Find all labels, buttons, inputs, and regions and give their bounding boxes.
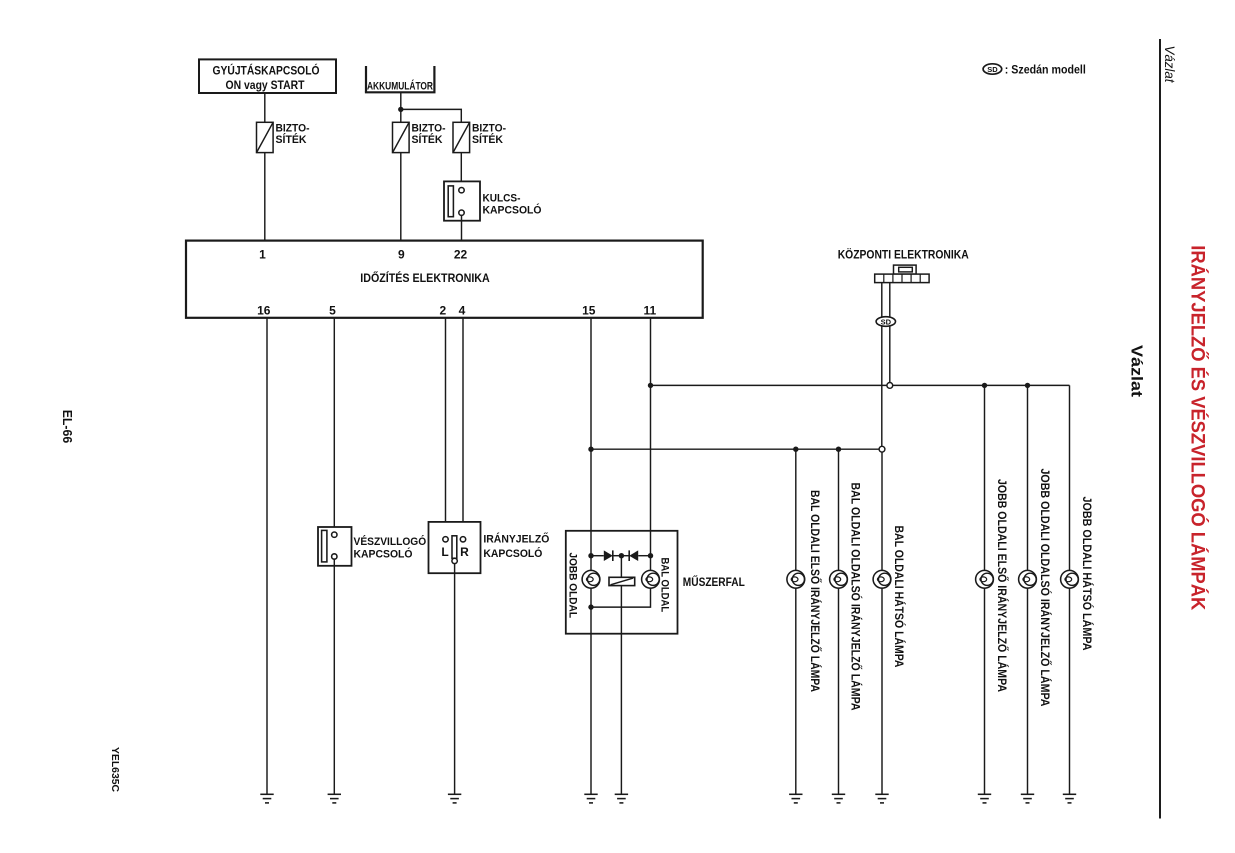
- wire central electronics left lead: [881, 283, 883, 447]
- wire lamp circuit 1 lower: [795, 588, 797, 794]
- control unit box IDŐZÍTÉS ELEKTRONIKA: [186, 241, 703, 318]
- wire pin 16 to ground: [266, 318, 268, 795]
- hazard switch VÉSZVILLOGÓ KAPCSOLÓ: [318, 527, 427, 566]
- svg-text:VÉSZVILLOGÓ: VÉSZVILLOGÓ: [354, 535, 427, 548]
- fuse F2: [393, 122, 446, 152]
- flasher unit: [609, 577, 635, 585]
- wire lamp circuit 2 upper: [838, 449, 840, 570]
- lamp L5 side right: [1019, 570, 1037, 588]
- svg-text:9: 9: [398, 248, 405, 262]
- svg-text:BIZTO-: BIZTO-: [472, 123, 506, 135]
- svg-text:L: L: [441, 545, 448, 559]
- ignition switch box: [199, 59, 336, 93]
- fuse F3: [453, 122, 506, 152]
- wire left lamp to ground: [590, 588, 592, 794]
- svg-text:16: 16: [257, 303, 271, 317]
- lamp L3 rear left: [873, 570, 891, 588]
- wire to diode D2: [638, 555, 650, 557]
- wire pin 5 to hazard switch: [333, 318, 335, 532]
- ground hazard switch: [328, 794, 341, 803]
- central electronics connector: [875, 265, 929, 283]
- wire turn signal switch to ground: [454, 564, 456, 795]
- svg-text:MŰSZERFAL: MŰSZERFAL: [683, 574, 745, 589]
- indicator lamp left (JOBB OLDAL): [582, 570, 600, 588]
- wire rail A right lamps feed: [651, 384, 1070, 386]
- key switch: [444, 181, 542, 220]
- connector terminal circle on rail B: [879, 446, 885, 452]
- wire ignition to fuse F1: [264, 93, 266, 122]
- ground turn signal switch: [448, 794, 461, 803]
- svg-text:JOBB OLDAL: JOBB OLDAL: [566, 553, 578, 619]
- svg-text:KAPCSOLÓ: KAPCSOLÓ: [354, 548, 413, 561]
- svg-text:Vázlat: Vázlat: [1128, 345, 1145, 397]
- wire lamp circuit 2 lower: [838, 588, 840, 794]
- svg-text:BAL OLDALI HÁTSÓ LÁMPA: BAL OLDALI HÁTSÓ LÁMPA: [892, 526, 907, 668]
- connector SD badge: [876, 317, 895, 327]
- wire branch to fuse F3: [401, 109, 462, 122]
- wire pin 4 to turn signal switch: [462, 318, 464, 537]
- svg-text:JOBB OLDALI OLDALSÓ IRÁNYJELZŐ: JOBB OLDALI OLDALSÓ IRÁNYJELZŐ LÁMPA: [1038, 469, 1053, 707]
- svg-text:KULCS-: KULCS-: [483, 193, 521, 205]
- svg-text:15: 15: [582, 303, 596, 317]
- svg-text:SÍTÉK: SÍTÉK: [276, 133, 307, 146]
- lamp L6 rear right: [1061, 570, 1079, 588]
- svg-text:SÍTÉK: SÍTÉK: [472, 133, 503, 146]
- wire central electronics right lead: [889, 283, 891, 383]
- ground lamp L2: [832, 794, 845, 803]
- svg-text:BAL OLDALI ELSŐ IRÁNYJELZŐ LÁM: BAL OLDALI ELSŐ IRÁNYJELZŐ LÁMPA: [808, 490, 823, 692]
- ground lamp L4: [978, 794, 991, 803]
- svg-text:IRÁNYJELZŐ: IRÁNYJELZŐ: [483, 533, 549, 546]
- svg-text:5: 5: [329, 303, 336, 317]
- svg-text:JOBB OLDALI ELSŐ IRÁNYJELZŐ LÁ: JOBB OLDALI ELSŐ IRÁNYJELZŐ LÁMPA: [995, 479, 1010, 692]
- wire F1 to control unit pin 1: [264, 153, 266, 241]
- svg-text:R: R: [460, 545, 469, 559]
- svg-text:BIZTO-: BIZTO-: [412, 123, 446, 135]
- wire center to flasher unit: [620, 556, 622, 578]
- svg-text:EL-66: EL-66: [60, 410, 75, 444]
- ground lamp L6: [1063, 794, 1076, 803]
- wire lamp circuit 5 upper: [1027, 385, 1029, 570]
- battery: [365, 66, 436, 92]
- wire F3 to key switch: [460, 153, 462, 188]
- svg-text:JOBB OLDALI HÁTSÓ LÁMPA: JOBB OLDALI HÁTSÓ LÁMPA: [1080, 497, 1095, 651]
- svg-text:KAPCSOLÓ: KAPCSOLÓ: [483, 204, 542, 217]
- svg-text:SD: SD: [881, 317, 892, 326]
- wire flasher to ground: [620, 586, 622, 795]
- node junction rail A lamp 4: [982, 383, 987, 388]
- wire pin 15 down to instrument panel: [590, 318, 592, 571]
- node junction diode row center: [619, 553, 624, 558]
- wire pin 2 to turn signal switch: [445, 318, 447, 537]
- wire lamp circuit 6 upper: [1069, 385, 1071, 570]
- svg-text:Vázlat: Vázlat: [1162, 46, 1177, 84]
- ground lamp L3: [875, 794, 888, 803]
- svg-text:SD: SD: [987, 65, 998, 74]
- node junction rail B lamp 2: [836, 447, 841, 452]
- wire lamp circuit 4 upper: [984, 385, 986, 570]
- node junction diode row right: [648, 553, 653, 558]
- ground lamp L5: [1021, 794, 1034, 803]
- svg-text:KAPCSOLÓ: KAPCSOLÓ: [483, 547, 542, 560]
- ground pin 16: [260, 794, 273, 803]
- wire lamp circuit 5 lower: [1027, 588, 1029, 794]
- lamp L4 front right: [976, 570, 994, 588]
- svg-text:YEL635C: YEL635C: [109, 747, 121, 792]
- lamp L1 front left: [787, 570, 805, 588]
- svg-text:: Szedán modell: : Szedán modell: [1005, 62, 1086, 76]
- wire rail B left lamps feed: [591, 448, 879, 450]
- instrument panel MŰSZERFAL box: [566, 531, 745, 634]
- wire lamp circuit 3 lower: [881, 588, 883, 794]
- sidebar divider line: [1159, 39, 1161, 819]
- svg-text:2: 2: [439, 303, 446, 317]
- svg-text:BIZTO-: BIZTO-: [276, 123, 310, 135]
- svg-text:22: 22: [454, 248, 468, 262]
- wire to diode D1: [591, 555, 604, 557]
- svg-text:AKKUMULÁTOR: AKKUMULÁTOR: [367, 79, 433, 92]
- node junction bottom rail: [588, 604, 593, 609]
- fuse F1: [257, 122, 310, 152]
- diode D1: [604, 550, 622, 561]
- indicator lamp right (BAL OLDAL): [642, 570, 660, 588]
- svg-text:1: 1: [259, 248, 266, 262]
- wire key switch to control unit pin 22: [461, 215, 463, 240]
- wire lamp circuit 3 upper: [881, 452, 883, 570]
- node junction rail B lamp 1: [793, 447, 798, 452]
- diode D2: [621, 550, 638, 561]
- wire F2 to control unit pin 9: [400, 153, 402, 241]
- svg-text:IDŐZÍTÉS ELEKTRONIKA: IDŐZÍTÉS ELEKTRONIKA: [360, 270, 490, 285]
- svg-text:BAL OLDAL: BAL OLDAL: [658, 558, 670, 613]
- ground left lamp: [584, 794, 597, 803]
- turn signal switch IRÁNYJELZŐ KAPCSOLÓ: [429, 522, 550, 573]
- node junction diode row left: [588, 553, 593, 558]
- svg-text:IRÁNYJELZŐ ÉS VÉSZVILLOGÓ LÁMP: IRÁNYJELZŐ ÉS VÉSZVILLOGÓ LÁMPÁK: [1186, 245, 1208, 610]
- wire battery down: [400, 92, 402, 122]
- wire lamp circuit 4 lower: [984, 588, 986, 794]
- svg-text:KÖZPONTI ELEKTRONIKA: KÖZPONTI ELEKTRONIKA: [838, 247, 969, 262]
- svg-text:4: 4: [459, 303, 466, 317]
- svg-text:BAL OLDALI OLDALSÓ IRÁNYJELZŐ: BAL OLDALI OLDALSÓ IRÁNYJELZŐ LÁMPA: [849, 483, 864, 711]
- wire right lamp to bottom rail: [591, 588, 651, 607]
- legend SD badge: [983, 64, 1002, 74]
- wire pin 11 down to instrument panel: [650, 318, 652, 571]
- wire lamp circuit 1 upper: [795, 449, 797, 570]
- ground lamp L1: [789, 794, 802, 803]
- lamp L2 side left: [830, 570, 848, 588]
- svg-text:GYÚJTÁSKAPCSOLÓ: GYÚJTÁSKAPCSOLÓ: [213, 62, 320, 77]
- node junction pin11 rail A: [648, 383, 653, 388]
- node junction pin15 rail B: [588, 447, 593, 452]
- wire hazard switch to ground: [333, 559, 335, 794]
- svg-text:11: 11: [643, 303, 656, 317]
- node junction battery branch: [398, 107, 403, 112]
- connector terminal circle on rail A: [887, 383, 893, 389]
- svg-text:SÍTÉK: SÍTÉK: [412, 133, 443, 146]
- svg-text:ON vagy START: ON vagy START: [226, 78, 306, 92]
- ground flasher: [615, 794, 628, 803]
- node junction rail A lamp 5: [1025, 383, 1030, 388]
- wire lamp circuit 6 lower: [1069, 588, 1071, 794]
